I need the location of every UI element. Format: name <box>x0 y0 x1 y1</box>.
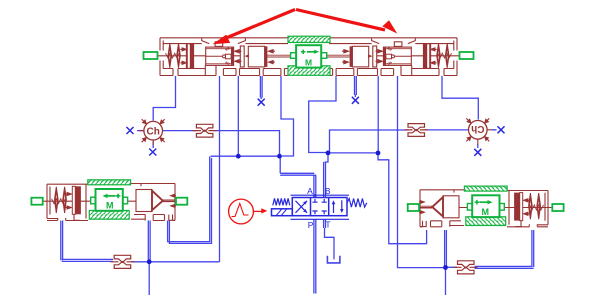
bottom right valve assembly (mirrored) <box>408 186 564 227</box>
svg-text:M: M <box>305 57 312 67</box>
divider bar <box>187 44 190 69</box>
wire vent stub right <box>355 76 357 97</box>
body squares <box>292 198 347 216</box>
svg-text:M: M <box>106 201 114 211</box>
wire left run horizontal <box>211 155 280 157</box>
throttle valve right-mid <box>405 124 429 137</box>
wire junction to A-port <box>280 156 316 197</box>
bottom left valve assembly <box>31 180 187 221</box>
foot hooks <box>74 213 175 220</box>
wire hook port5 <box>281 76 294 156</box>
signal generator <box>229 199 268 224</box>
wire A stub <box>314 194 316 197</box>
wire bottom left assembly <box>148 221 150 295</box>
solenoid <box>272 209 293 216</box>
wire vent stub left <box>260 76 262 99</box>
Ch measuring point left <box>140 119 165 145</box>
svg-text:P: P <box>308 220 314 230</box>
wire to Ch-right <box>442 76 478 120</box>
wire U from left assembly <box>168 156 212 243</box>
divider <box>72 186 75 214</box>
wire T to tank <box>324 219 334 259</box>
chamber wall double <box>240 46 244 67</box>
outline <box>47 184 175 187</box>
spring right <box>347 199 367 208</box>
wire Ch-right line <box>330 130 462 153</box>
throttle valve bottom-right <box>454 261 478 274</box>
wire port to junction right <box>377 76 379 153</box>
svg-text:A: A <box>307 186 313 196</box>
wire jog down right <box>378 153 427 244</box>
mid chamber <box>248 46 264 67</box>
Ch measuring point right (rotated) <box>466 118 492 144</box>
stem <box>43 200 176 202</box>
throttle valve left-mid <box>193 124 217 137</box>
green ports <box>31 198 42 205</box>
white box before triangle <box>136 190 152 212</box>
wire Ch-left to junction <box>213 131 279 157</box>
junction dots <box>147 151 448 270</box>
springs <box>55 187 59 213</box>
motor unit <box>88 180 131 219</box>
svg-text:Ch: Ch <box>147 126 160 137</box>
valve half left <box>144 38 309 76</box>
prop lines <box>291 195 350 219</box>
rod to port <box>163 200 176 202</box>
wire long left vertical <box>219 76 221 262</box>
wire right run <box>328 152 378 154</box>
arrows near triangle <box>171 194 176 207</box>
wire P down <box>314 219 316 293</box>
bottom feet <box>160 75 288 77</box>
inner top line <box>163 44 288 69</box>
spring left above solenoid <box>273 198 290 205</box>
small arrows <box>180 48 275 64</box>
tank symbol <box>327 256 340 263</box>
port labels <box>307 186 331 230</box>
svg-text:Ch: Ch <box>471 123 484 134</box>
spring chamber springs <box>168 44 172 68</box>
pilot box <box>206 47 234 65</box>
vent X symbols <box>127 97 505 156</box>
outer walls <box>160 37 309 39</box>
arrows square3 <box>334 200 342 213</box>
stem line <box>150 55 467 57</box>
svg-text:B: B <box>325 186 331 196</box>
top valve assembly <box>144 36 474 75</box>
svg-text:T: T <box>325 219 330 229</box>
wire bottom right assembly <box>445 230 447 295</box>
wire Ch-right stubs <box>461 130 497 148</box>
triangle poppet <box>152 191 163 211</box>
wire port to junction A <box>237 76 239 156</box>
red annotation arrows <box>213 10 398 45</box>
pilot notch <box>202 38 246 44</box>
proportional valve center <box>272 186 367 230</box>
motor unit center <box>288 36 330 75</box>
green port left <box>144 52 158 59</box>
throttle valve bottom-left <box>111 255 135 268</box>
wire Ch-left stubs <box>137 131 196 148</box>
wire network, blue lines <box>61 76 534 295</box>
closed center stubs <box>312 199 326 214</box>
wire top port1 to Ch-left <box>153 76 175 121</box>
X arrows in square1 <box>296 201 308 213</box>
wire B-port up <box>324 153 328 198</box>
wire long right vertical <box>398 76 446 268</box>
wire snake right <box>309 76 336 153</box>
valve half right (mirrored) <box>309 38 474 76</box>
